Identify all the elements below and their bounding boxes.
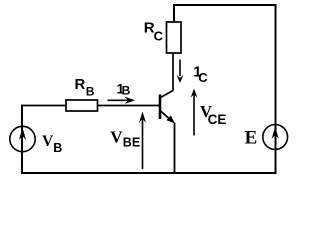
- wire top (collector rail): [174, 4, 276, 6]
- resistor RC: [167, 22, 182, 53]
- svg-text:E: E: [245, 127, 258, 148]
- voltage arrow VBE: [142, 117, 144, 169]
- source E arrowhead: [272, 127, 279, 139]
- current arrow IC: [179, 60, 181, 77]
- wire base right segment: [98, 105, 160, 107]
- svg-text:C: C: [198, 70, 208, 85]
- svg-text:B: B: [122, 84, 131, 98]
- svg-text:R: R: [75, 76, 86, 93]
- source VB arrowhead: [19, 128, 26, 141]
- svg-text:V: V: [110, 128, 123, 147]
- wire collector lower segment: [160, 53, 173, 98]
- current arrow IB: [108, 99, 130, 101]
- voltage arrow VCE: [193, 94, 195, 136]
- wire left side: [21, 105, 23, 174]
- svg-text:B: B: [86, 85, 95, 99]
- resistor RB: [66, 100, 98, 111]
- wire base left segment: [21, 105, 66, 107]
- wire bottom rail: [21, 172, 277, 174]
- wire collector stub from top rail: [173, 4, 175, 22]
- svg-text:B: B: [53, 141, 62, 155]
- wire right side: [275, 4, 277, 173]
- svg-text:BE: BE: [123, 136, 140, 150]
- svg-text:C: C: [154, 29, 164, 44]
- source VB circle: [10, 126, 35, 151]
- transistor Q1 emitter diagonal with arrowhead: [160, 111, 173, 122]
- wire emitter vertical: [174, 123, 176, 174]
- svg-text:V: V: [42, 133, 54, 150]
- source E circle: [263, 125, 288, 150]
- transistor Q1 base bar: [159, 95, 162, 120]
- svg-text:CE: CE: [208, 112, 227, 127]
